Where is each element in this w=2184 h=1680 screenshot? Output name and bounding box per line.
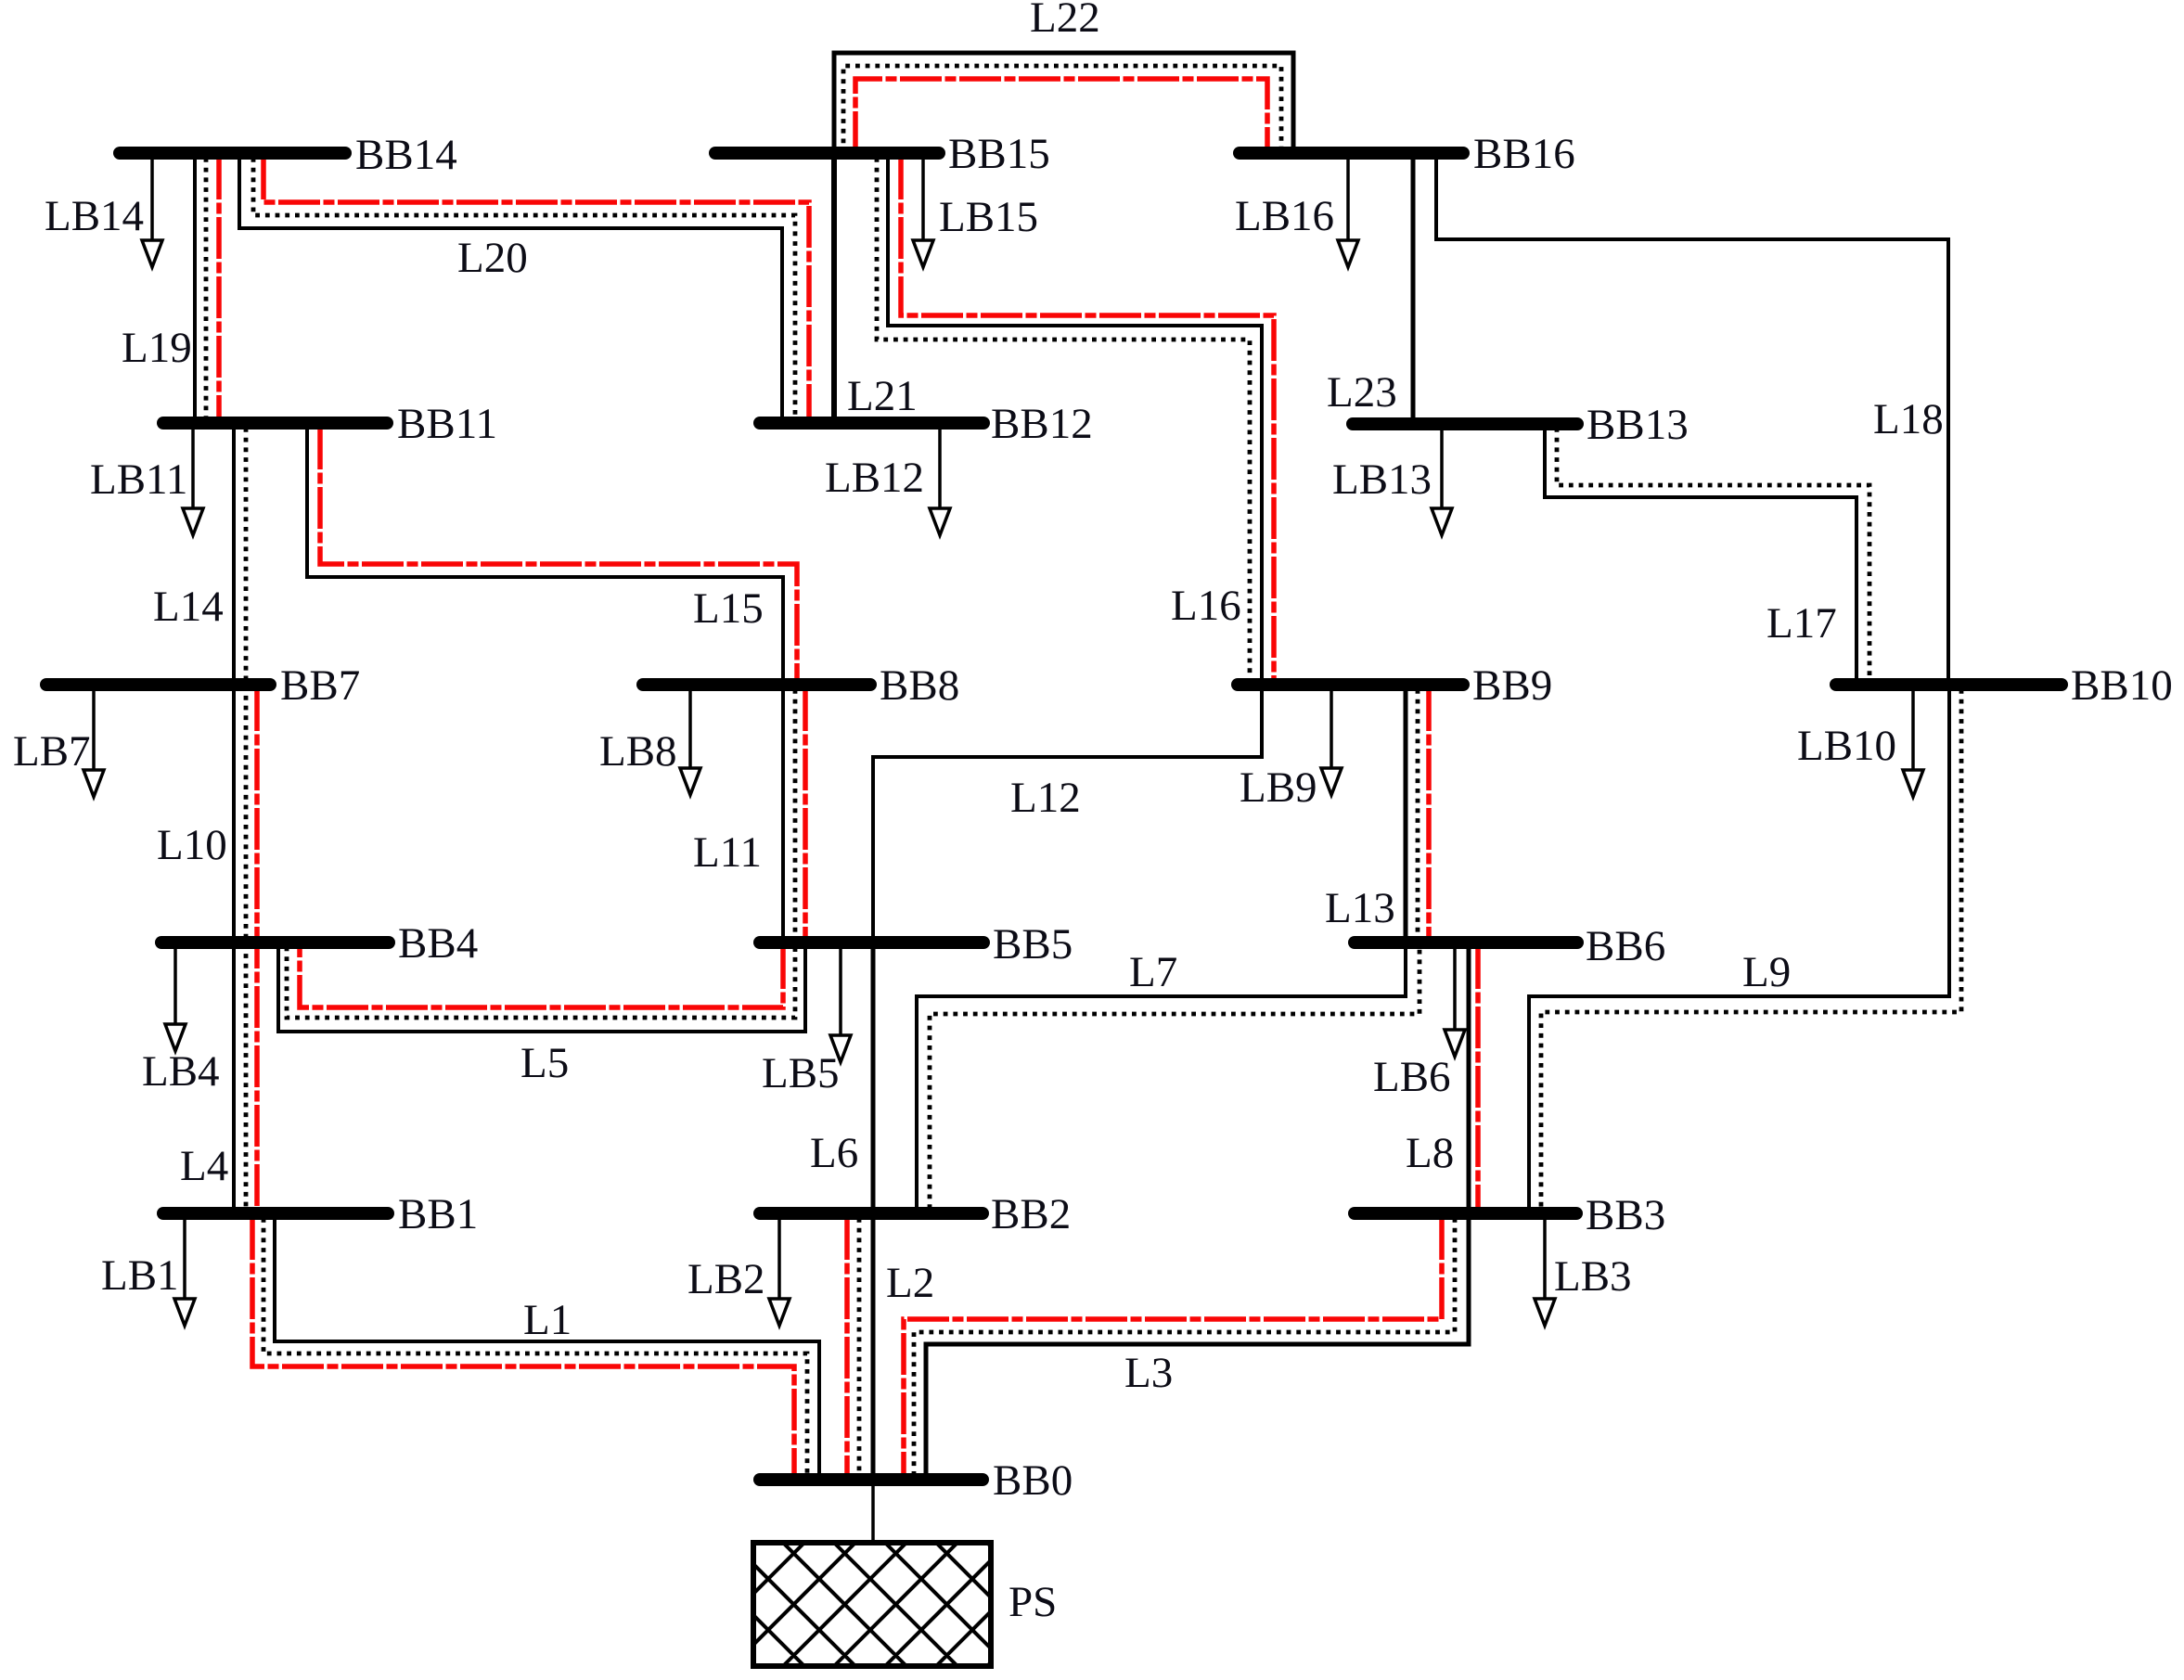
label L18 [1873,395,1944,443]
label BB10 [2071,661,2173,710]
busbar BB12 [760,417,983,430]
label LB4 [142,1047,220,1096]
busbar BB13 [1353,417,1577,430]
svg-text:LB5: LB5 [762,1049,840,1097]
label BB1 [398,1190,478,1238]
svg-text:LB11: LB11 [90,455,187,504]
label LB6 [1373,1053,1451,1101]
svg-text:LB9: LB9 [1240,763,1317,812]
svg-text:L7: L7 [1129,948,1177,996]
svg-text:L15: L15 [693,584,764,633]
svg-text:LB4: LB4 [142,1047,220,1096]
line L5 BB4-BB5 [278,947,805,1032]
busbar BB11 [163,417,387,430]
wire red along L2 [844,1218,850,1475]
wire dotted along L20 [253,158,795,418]
wire dotted along L2 [857,1218,862,1475]
label LB12 [825,454,924,502]
wire red along L16 [901,158,1274,680]
wire red along L11 [803,689,808,938]
label L16 [1171,582,1241,630]
wire dotted along L17 [1557,428,1869,680]
load LB10 [1903,691,1923,797]
wire dotted along L13 [1416,689,1420,938]
line L4 BB4-BB1 [232,947,236,1209]
label BB6 [1586,922,1665,970]
label LB13 [1332,455,1432,504]
line L16 BB15-BB9 [888,158,1262,680]
busbar BB15 [715,147,939,160]
load LB6 [1445,949,1465,1057]
svg-text:LB13: LB13 [1332,455,1432,504]
label LB16 [1235,192,1334,240]
busbar BB14 [120,147,345,160]
svg-text:LB6: LB6 [1373,1053,1451,1101]
label LB10 [1797,722,1896,770]
line L2 BB2-BB0 [871,1218,876,1475]
svg-text:BB8: BB8 [880,661,959,710]
svg-text:BB13: BB13 [1587,401,1689,449]
line L8 BB6-BB3 [1467,947,1471,1209]
svg-text:L20: L20 [457,234,528,282]
wire red along L8 [1475,947,1481,1209]
busbar BB9 [1238,678,1463,691]
label LB11 [90,455,187,504]
svg-text:BB15: BB15 [948,130,1050,178]
svg-text:L10: L10 [157,821,227,869]
label BB16 [1473,130,1575,178]
svg-text:LB12: LB12 [825,454,924,502]
line L20 BB14-BB12 [239,158,782,418]
load LB14 [142,160,162,267]
wire BB0 to PS [871,1485,875,1543]
busbar BB6 [1355,936,1577,949]
label L1 [523,1296,572,1344]
wire dotted along L3 [914,1218,1455,1475]
svg-text:BB9: BB9 [1472,661,1552,710]
label BB0 [993,1456,1073,1505]
line L9 BB10-BB3 [1529,689,1949,1209]
busbar BB4 [161,936,389,949]
svg-text:L21: L21 [847,372,918,420]
line L1 BB1-BB0 [275,1218,819,1475]
label LB14 [45,192,144,240]
label L23 [1327,368,1397,417]
load LB15 [913,160,933,267]
svg-text:BB6: BB6 [1586,922,1665,970]
label LB7 [13,727,91,776]
label LB8 [599,727,677,776]
label BB11 [397,400,497,448]
svg-text:BB10: BB10 [2071,661,2173,710]
svg-text:L19: L19 [122,324,192,372]
line L23 BB16-BB13 [1411,158,1416,418]
svg-text:LB3: LB3 [1554,1252,1632,1301]
label L11 [693,828,762,877]
line L14 BB11-BB7 [232,428,236,680]
label BB3 [1586,1191,1665,1239]
line L22 BB15-BB16 [834,53,1293,153]
wire dotted along L22 [843,66,1281,153]
wire dotted along L7 [930,947,1420,1209]
label BB5 [993,920,1073,968]
label LB1 [101,1251,179,1300]
wire red along L20 [263,158,809,418]
label BB7 [280,661,360,710]
wire red along L19 [216,158,222,418]
label LB2 [687,1255,765,1303]
line L11 BB8-BB5 [781,689,785,938]
busbar BB7 [46,678,270,691]
svg-text:BB1: BB1 [398,1190,478,1238]
busbar BB10 [1836,678,2062,691]
svg-text:L13: L13 [1325,884,1395,932]
svg-text:BB12: BB12 [991,400,1093,448]
svg-text:L17: L17 [1766,599,1837,648]
svg-text:BB0: BB0 [993,1456,1073,1505]
label BB2 [991,1190,1071,1238]
svg-text:L4: L4 [180,1142,228,1190]
label BB13 [1587,401,1689,449]
line L12 BB5-BB9 [873,689,1262,938]
svg-text:BB2: BB2 [991,1190,1071,1238]
load LB2 [769,1220,790,1326]
svg-text:L18: L18 [1873,395,1944,443]
label LB15 [939,193,1038,241]
load LB12 [930,430,950,535]
wire red along L3 [904,1218,1442,1475]
svg-text:L12: L12 [1010,774,1081,822]
wire dotted along L14-L10-L4 [244,428,249,1209]
load LB9 [1321,691,1342,795]
load LB3 [1535,1220,1555,1326]
label L21 [847,372,918,420]
svg-text:L16: L16 [1171,582,1241,630]
svg-text:L11: L11 [693,828,762,877]
svg-text:LB7: LB7 [13,727,91,776]
line L3 BB3-BB0 [926,1218,1469,1475]
wire dotted along L16 [877,158,1250,680]
svg-text:LB16: LB16 [1235,192,1334,240]
line L17 BB13-BB10 [1545,428,1856,680]
power source PS box with crosshatch [579,1543,1162,1666]
label BB12 [991,400,1093,448]
busbar BB5 [760,936,983,949]
svg-text:L23: L23 [1327,368,1397,417]
load LB13 [1432,430,1452,535]
busbar BB16 [1240,147,1463,160]
svg-text:LB2: LB2 [687,1255,765,1303]
label BB8 [880,661,959,710]
label PS [1008,1578,1057,1626]
wire red along L1 [252,1218,794,1475]
svg-text:BB4: BB4 [398,919,478,968]
label BB14 [355,131,457,179]
load LB4 [165,949,186,1051]
wire red along L13 [1426,689,1432,938]
load LB5 [830,949,851,1062]
busbar BB1 [163,1207,388,1220]
wire red along L22 [855,79,1267,153]
load LB16 [1338,160,1358,267]
label L9 [1742,948,1791,996]
svg-text:BB7: BB7 [280,661,360,710]
load LB7 [84,691,104,797]
label L12 [1010,774,1081,822]
svg-text:L8: L8 [1406,1129,1454,1177]
svg-text:L2: L2 [886,1259,934,1307]
svg-text:LB15: LB15 [939,193,1038,241]
label L15 [693,584,764,633]
svg-text:LB14: LB14 [45,192,144,240]
label LB9 [1240,763,1317,812]
label L5 [520,1039,569,1087]
svg-text:L5: L5 [520,1039,569,1087]
wire red along L15 [320,428,797,680]
wire dotted along L9 [1541,689,1961,1209]
busbar BB3 [1355,1207,1576,1220]
wire dotted BB8 down along L11 then left along L5 to BB4 [287,689,795,1018]
label BB9 [1472,661,1552,710]
label L17 [1766,599,1837,648]
line L21 BB15-BB12 [831,158,837,418]
label BB15 [948,130,1050,178]
line L13 BB9-BB6 [1404,689,1408,938]
load LB11 [183,430,203,535]
wire red along L10-L4 [254,689,260,1209]
label L8 [1406,1129,1454,1177]
svg-text:L9: L9 [1742,948,1791,996]
svg-text:L3: L3 [1124,1349,1173,1397]
svg-text:LB1: LB1 [101,1251,179,1300]
svg-text:L6: L6 [810,1129,858,1177]
label L7 [1129,948,1177,996]
svg-text:BB16: BB16 [1473,130,1575,178]
line L6 BB5-BB2 [871,947,876,1209]
label L2 [886,1259,934,1307]
line L19 BB14-BB11 [193,158,197,418]
svg-text:L22: L22 [1030,0,1100,42]
line L10 BB7-BB4 [232,689,236,938]
wire dotted along L1 [263,1218,807,1475]
svg-text:BB5: BB5 [993,920,1073,968]
wire dotted along L19 [204,158,209,418]
label L22 [1030,0,1100,42]
load LB8 [680,691,700,795]
svg-text:BB3: BB3 [1586,1191,1665,1239]
line L7 BB2-BB6 [917,947,1406,1209]
label L6 [810,1129,858,1177]
label L10 [157,821,227,869]
label L13 [1325,884,1395,932]
label L19 [122,324,192,372]
label BB4 [398,919,478,968]
label L4 [180,1142,228,1190]
label L14 [153,583,224,631]
label L20 [457,234,528,282]
load LB1 [174,1220,195,1326]
label LB5 [762,1049,840,1097]
label L3 [1124,1349,1173,1397]
svg-text:LB10: LB10 [1797,722,1896,770]
busbar BB0 [760,1473,983,1486]
svg-text:PS: PS [1008,1578,1057,1626]
line L18 BB16-BB10 [1436,158,1948,680]
svg-text:BB11: BB11 [397,400,497,448]
svg-text:BB14: BB14 [355,131,457,179]
busbar BB2 [760,1207,983,1220]
wire red BB5 down then left along L5 to BB4 [300,947,783,1007]
busbar BB8 [643,678,870,691]
svg-text:LB8: LB8 [599,727,677,776]
svg-text:L14: L14 [153,583,224,631]
label LB3 [1554,1252,1632,1301]
svg-text:L1: L1 [523,1296,572,1344]
line L15 BB11-BB8 [307,428,783,680]
